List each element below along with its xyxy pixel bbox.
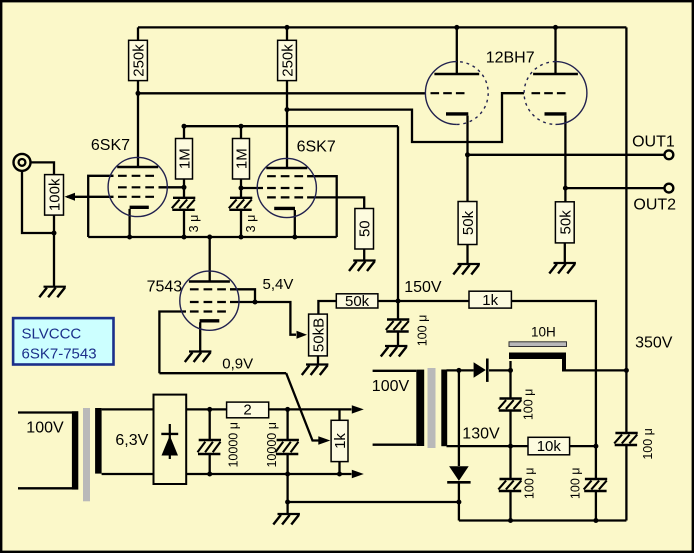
wire staircase to 12BH7 grid2 <box>287 93 524 142</box>
wire diagonal to 1k heater pot <box>286 373 319 440</box>
svg-text:250k: 250k <box>280 44 297 77</box>
capacitor C4 10000u <box>198 422 241 467</box>
wire 6SK7-2 g2 right down <box>307 176 337 237</box>
wire 1k heater leads <box>338 409 340 474</box>
wire 3u1 leads <box>183 187 185 237</box>
arrow heater out top <box>352 405 364 413</box>
wire 100u D leads <box>595 446 597 520</box>
svg-text:250k: 250k <box>131 44 148 77</box>
svg-text:6SK7-7543: 6SK7-7543 <box>22 346 97 363</box>
wire node A to 12BH7 grid1 <box>138 92 425 94</box>
svg-text:7543: 7543 <box>147 279 183 296</box>
svg-text:1k: 1k <box>482 292 498 309</box>
wire 1M2 leads <box>240 126 242 188</box>
junction 7543 plate on bus <box>207 235 212 240</box>
svg-text:100 μ: 100 μ <box>641 428 655 460</box>
junction secondary top / D2 branch <box>456 368 461 373</box>
resistor R5 50 <box>355 209 374 250</box>
ground (heater 0V) <box>273 514 300 525</box>
svg-text:1M: 1M <box>234 148 251 169</box>
wire D2 column <box>458 370 460 520</box>
junction 12BH7-B plate / B+ bus <box>553 25 558 30</box>
wire heater secondary top lead <box>102 408 154 410</box>
label SLVCCC box <box>13 318 113 364</box>
wire OUT1 line <box>468 154 665 156</box>
wire power secondary bottom to 10k <box>447 445 529 447</box>
svg-text:50k: 50k <box>460 210 477 235</box>
junction node A (250k1 bottom) <box>136 91 141 96</box>
wire top B+ bus <box>138 26 626 28</box>
wire heater primary top lead <box>18 411 72 413</box>
capacitor C1 3u <box>172 198 201 233</box>
junction 0V link / D2 line <box>456 500 461 505</box>
junction heater 0V ground tap <box>285 500 290 505</box>
tube V4 12BH7 triode A <box>425 62 488 125</box>
svg-text:10k: 10k <box>537 438 562 455</box>
wire diode1 to choke node <box>489 369 511 371</box>
wire 150V cap leads <box>397 301 399 346</box>
svg-text:10000 μ: 10000 μ <box>265 422 279 467</box>
wire 250k2 leads <box>286 27 288 109</box>
wire jack down <box>22 171 54 234</box>
junction OUT1 node <box>465 152 470 157</box>
junction 7543 grids tie <box>253 300 258 305</box>
wire right 350V rail upper <box>625 27 627 370</box>
svg-text:6SK7: 6SK7 <box>91 137 130 154</box>
input jack <box>14 154 31 171</box>
capacitor C7 100u (130V lower) <box>498 468 536 500</box>
svg-text:100 μ: 100 μ <box>522 389 536 421</box>
transformer T2 power primary <box>416 370 424 446</box>
svg-text:3 μ: 3 μ <box>244 215 258 233</box>
wire 12BH7-2 cathode down <box>564 116 566 202</box>
capacitor C8 100u (10k right) <box>569 468 608 500</box>
wire 100u B leads <box>509 370 511 446</box>
tube V3 7543 <box>180 271 239 330</box>
potentiometer 100k <box>45 175 75 216</box>
wire 50k left to 50kB <box>318 301 336 314</box>
capacitor C5 10000u <box>265 422 299 467</box>
wire 1k right and down <box>511 301 596 446</box>
tube V2 6SK7 <box>257 158 316 217</box>
ground (7543 cathode) <box>185 352 212 363</box>
svg-text:100 μ: 100 μ <box>569 468 583 500</box>
diode D2 <box>447 466 470 482</box>
wire 150V node to 1k <box>398 300 469 302</box>
svg-text:0,9V: 0,9V <box>222 356 253 373</box>
wire 6SK7-1 g2 down <box>88 176 113 237</box>
wire bottom 0V bus <box>459 519 627 521</box>
svg-text:OUT2: OUT2 <box>633 197 676 214</box>
junction V1 cathode on bus <box>127 235 132 240</box>
junction 0V bus / C8 <box>593 518 598 523</box>
wire 7543 g3 left down <box>159 312 186 374</box>
transformer T2 core <box>428 368 436 448</box>
junction 12BH7-A plate / B+ bus <box>454 25 459 30</box>
diode D1 <box>474 359 488 382</box>
wire 6SK7-1 plate lead <box>137 93 139 167</box>
wire 10k right lead <box>570 445 596 447</box>
junction 250k2 top / B+ bus <box>285 25 290 30</box>
wire 50 to ground <box>363 249 365 261</box>
wire heater secondary bottom lead <box>102 473 154 475</box>
wire 12BH7-1 plate lead <box>456 27 458 74</box>
wire 0.9V run <box>159 372 286 374</box>
wire down to 150V node <box>397 126 399 301</box>
junction 100k bottom / jack return <box>52 231 57 236</box>
svg-text:100 μ: 100 μ <box>416 315 430 347</box>
resistor R3 1M <box>176 139 194 180</box>
ground (input jack) <box>39 287 66 298</box>
wire 250k1 leads <box>137 27 139 93</box>
junction D1 out / C6 <box>508 368 513 373</box>
svg-text:6,3V: 6,3V <box>115 432 148 449</box>
wire heater out bottom <box>186 473 351 475</box>
svg-text:130V: 130V <box>462 426 500 443</box>
junction 1M2 top <box>239 124 244 129</box>
junction heater + / C5 <box>285 407 290 412</box>
resistor R6 50k (12BH7-1 cathode) <box>458 202 477 245</box>
wire 6SK7-1 cathode lead <box>128 209 130 237</box>
wire 6SK7-2 g3 to 50 <box>307 197 364 208</box>
wire 6SK7-1 grid arrow line <box>67 196 114 198</box>
junction 130V node right <box>593 444 598 449</box>
wire 6SK7-2 cathode lead <box>294 210 296 237</box>
junction 130V node left <box>508 444 513 449</box>
tube V1 6SK7 <box>108 157 167 216</box>
junction 150V node <box>396 299 401 304</box>
resistor R7 50k (12BH7-2 cathode) <box>555 202 574 243</box>
wire 7543 grid to 50kB wiper <box>230 302 296 335</box>
svg-text:350V: 350V <box>635 335 673 352</box>
resistor R1 250k <box>129 40 148 80</box>
junction heater - / C4 <box>207 472 212 477</box>
terminal OUT2 <box>665 184 674 193</box>
rectifier box 6.3V <box>154 395 187 484</box>
ground (50kB) <box>302 365 329 376</box>
wire power primary bottom lead <box>373 444 417 446</box>
wire 1M1 leads <box>183 126 185 187</box>
transformer T2 secondary <box>441 370 447 447</box>
svg-text:SLVCCC: SLVCCC <box>22 326 82 343</box>
wire 0V ground lead <box>286 502 288 514</box>
wire heater out top <box>186 408 351 410</box>
transformer T1 core <box>83 408 90 501</box>
svg-text:100V: 100V <box>26 420 64 437</box>
svg-text:2: 2 <box>243 402 251 419</box>
wire 50k4 to ground <box>564 243 566 263</box>
svg-text:OUT1: OUT1 <box>632 134 675 151</box>
wire 6SK7-2 plate lead <box>286 110 288 168</box>
wire heater 0V down <box>286 474 288 502</box>
wire 12BH7-2 plate lead <box>554 27 556 74</box>
svg-text:50k: 50k <box>557 210 574 235</box>
svg-text:6SK7: 6SK7 <box>297 139 336 156</box>
ground (50k 12BH7-1) <box>453 264 480 275</box>
svg-text:150V: 150V <box>404 279 442 296</box>
svg-text:10000 μ: 10000 μ <box>227 422 241 467</box>
svg-text:100k: 100k <box>47 178 64 211</box>
wire 350V rail lower <box>625 370 627 520</box>
wire power primary top lead <box>373 370 417 372</box>
svg-text:5,4V: 5,4V <box>263 276 294 293</box>
junction 1M1 top <box>182 124 187 129</box>
svg-text:50k: 50k <box>345 293 370 310</box>
junction heater - / C5 <box>285 472 290 477</box>
ground (50k 12BH7-2) <box>549 263 576 274</box>
capacitor C2 3u <box>229 198 258 233</box>
potentiometer 50kB <box>297 314 328 356</box>
ground (50 resistor) <box>349 261 376 272</box>
terminal OUT1 <box>665 150 674 159</box>
capacitor C3 100u (150V node) <box>386 315 430 347</box>
resistor R9 1k horizontal <box>469 291 511 309</box>
junction heater + / C4 <box>207 407 212 412</box>
arrow heater out bottom <box>352 470 364 478</box>
svg-text:1M: 1M <box>177 148 194 169</box>
wire 50kB to ground <box>317 356 319 365</box>
wire 7543 g2 jumper <box>230 289 255 302</box>
wire 6SK7-1 grid to 1M1 <box>159 186 185 188</box>
wire 0V link <box>288 501 459 503</box>
wire 7543 plate lead <box>209 237 211 282</box>
svg-text:12BH7: 12BH7 <box>486 49 535 66</box>
junction V2 cathode on bus <box>292 235 297 240</box>
wire choke out <box>566 369 626 371</box>
wire input jack to 100k <box>30 162 54 174</box>
svg-text:50: 50 <box>357 220 374 237</box>
wire 6SK7-2 grid to 1M2 <box>241 187 263 189</box>
junction 0V bus / C7 <box>508 518 513 523</box>
wire 50k3 to ground <box>466 245 468 265</box>
wire 10000u cap2 leads <box>286 409 288 474</box>
wire cathode bus <box>88 236 337 238</box>
ground (100u 150V node) <box>381 346 408 357</box>
wire power secondary top lead <box>447 369 474 371</box>
wire 1M top bus <box>184 125 398 127</box>
junction 350V rail / choke out <box>624 368 629 373</box>
wire choke left lead <box>509 361 511 370</box>
resistor R11 2 horizontal <box>227 402 269 419</box>
wire 10000u cap1 leads <box>209 409 211 474</box>
resistor R2 250k <box>278 40 297 80</box>
resistor R4 1M <box>233 139 251 180</box>
svg-text:100 μ: 100 μ <box>523 468 537 500</box>
wire 3u2 leads <box>240 188 242 237</box>
junction C1 on bus <box>182 235 187 240</box>
resistor R10 10k horizontal <box>528 437 570 455</box>
choke 10H <box>509 342 567 372</box>
resistor R8 50k horizontal <box>336 293 378 310</box>
svg-text:50kB: 50kB <box>311 318 328 352</box>
potentiometer 1k heater <box>318 420 349 461</box>
junction OUT2 node <box>563 186 568 191</box>
wire 7543 cathode to ground <box>199 322 201 351</box>
tube V5 12BH7 triode B <box>524 62 587 125</box>
junction C2 on bus <box>239 235 244 240</box>
junction V1 grid / 1M1 / C1 <box>182 185 187 190</box>
wire 50k right to 150V node <box>378 300 398 302</box>
wire 100u C leads <box>509 446 511 520</box>
capacitor C6 100u (after D1) <box>498 389 535 421</box>
svg-text:10H: 10H <box>531 325 556 340</box>
transformer T1 heater primary <box>72 411 78 489</box>
svg-text:100V: 100V <box>372 378 410 395</box>
svg-text:1k: 1k <box>332 433 349 449</box>
wire 100k bottom to ground <box>53 215 55 287</box>
wire OUT2 line <box>565 187 664 189</box>
junction V2 grid / 1M2 / C2 <box>239 186 244 191</box>
junction heater - / 1k pot <box>337 472 342 477</box>
junction node B (250k2 bottom) <box>285 107 290 112</box>
svg-text:3 μ: 3 μ <box>187 215 201 233</box>
wire 12BH7-1 cathode down <box>466 116 468 202</box>
transformer T1 secondary <box>95 408 102 474</box>
wire heater primary bottom lead <box>18 487 72 489</box>
capacitor C9 100u (350V rail) <box>614 428 655 460</box>
